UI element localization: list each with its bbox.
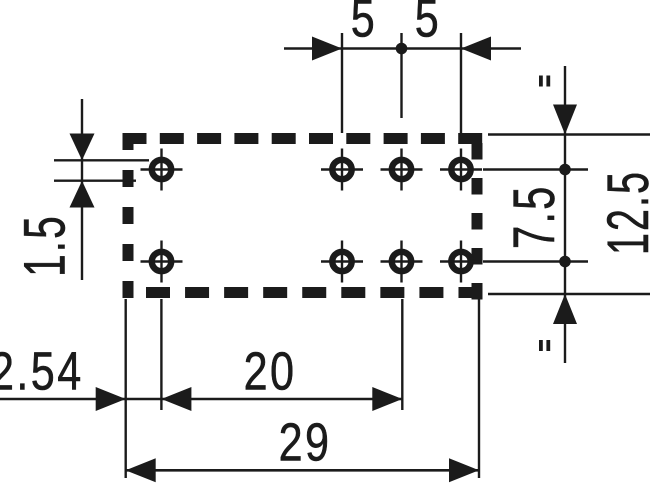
hole H3 top row [381, 149, 423, 191]
lower dimension line 2.54 and 20 [0, 398, 402, 401]
hole diameter extension line lower [54, 179, 136, 181]
extension line pin col 2 [341, 33, 343, 133]
right dimension line [564, 66, 566, 363]
right top extension line [488, 133, 650, 135]
arrowhead 29 right [449, 458, 479, 482]
svg-text:5: 5 [415, 0, 441, 49]
hole diameter extension line upper [54, 159, 149, 161]
hole H7 bottom row [381, 241, 423, 283]
equal sign bottom [541, 340, 548, 351]
hole H6 bottom row [321, 241, 363, 283]
svg-text:1.5: 1.5 [12, 214, 77, 277]
arrowhead 29 left [126, 458, 156, 482]
top left arrowhead [312, 37, 342, 61]
svg-text:20: 20 [244, 342, 297, 402]
dashed outline bottom edge [146, 287, 483, 298]
extension line pin col 3 [400, 33, 402, 118]
dashed outline left edge [123, 133, 134, 298]
svg-text:12.5: 12.5 [595, 170, 650, 255]
extension line rect left edge [124, 299, 126, 478]
svg-text:5: 5 [351, 0, 377, 49]
left down arrowhead [70, 134, 95, 161]
svg-text:7.5: 7.5 [501, 184, 566, 249]
right up arrowhead [553, 294, 577, 324]
dashed outline top edge [123, 133, 483, 144]
right row1 extension line [483, 168, 588, 170]
top dimension line [284, 47, 521, 50]
hole H1 top-left [141, 149, 183, 191]
hole H8 bottom-right [440, 241, 482, 283]
extension line pin col 3 lower [401, 299, 403, 410]
arrowhead 20 right [372, 387, 402, 411]
hole H5 bottom-left [141, 241, 183, 283]
top right arrowhead [461, 37, 491, 61]
left up arrowhead [70, 181, 95, 208]
right dot row1 [559, 164, 571, 176]
right dot row2 [559, 256, 571, 268]
right bottom extension line [488, 293, 650, 295]
equal sign top [541, 76, 548, 87]
arrowhead 2.54 [96, 387, 126, 411]
extension line pin col 1 [160, 299, 162, 410]
arrowhead 20 left [161, 387, 191, 411]
left dimension line [81, 99, 83, 280]
dimension line 29 [126, 469, 479, 472]
hole H4 top-right [440, 149, 482, 191]
dashed outline right edge [472, 143, 483, 300]
right down arrowhead [553, 105, 577, 135]
top dimension dot [396, 43, 408, 55]
svg-text:29: 29 [279, 413, 332, 473]
svg-text:2.54: 2.54 [0, 342, 84, 402]
extension line rect right edge [478, 299, 480, 478]
right row2 extension line [483, 260, 588, 262]
hole H2 top row [321, 149, 363, 191]
extension line pin col 4 [460, 33, 462, 133]
